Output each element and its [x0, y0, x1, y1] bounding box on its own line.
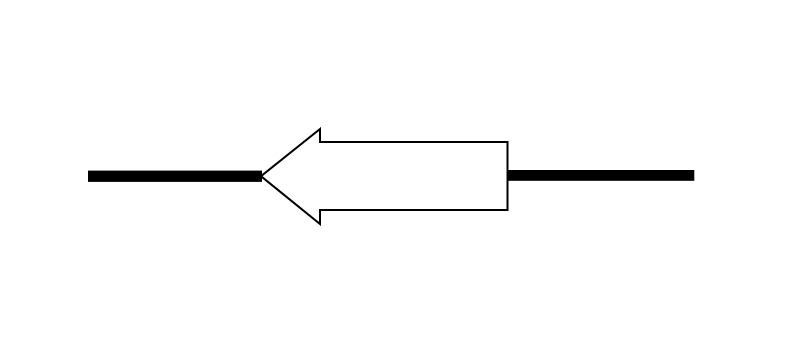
wire W2 (right lead) [508, 170, 695, 181]
arrow symbol (left-pointing hollow arrow body) [261, 129, 508, 224]
wire W1 (left lead) [88, 171, 262, 182]
